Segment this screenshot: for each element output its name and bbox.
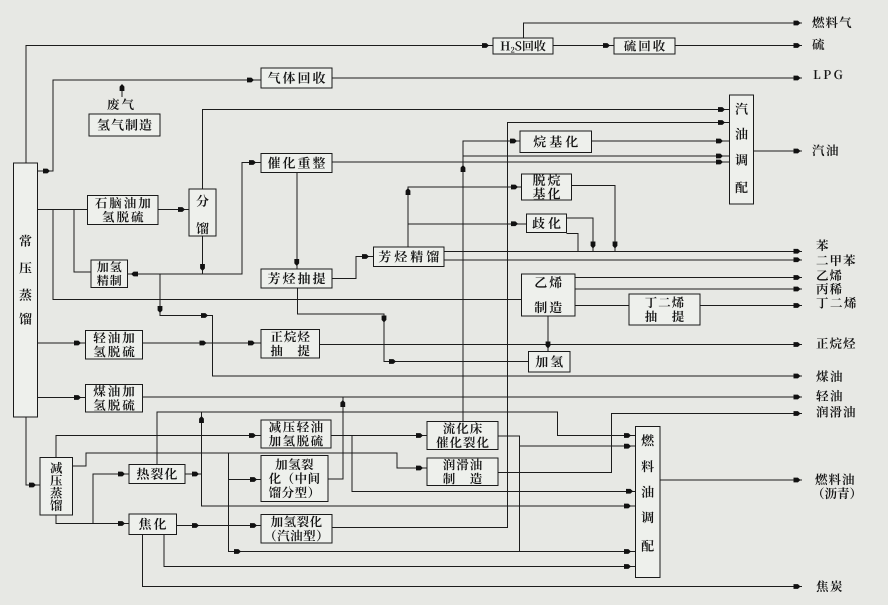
arrowhead 煤油线→ bbox=[201, 313, 208, 318]
arrowhead →催化重整 bbox=[249, 160, 256, 165]
wire 减压蒸馏→减压轻油加氢脱硫 bbox=[56, 436, 261, 458]
arrowhead 分馏底↓ bbox=[200, 264, 205, 271]
wire 催化裂化汽油→汽油调配 bbox=[463, 155, 730, 157]
wire 乙烯制造→丙稀 bbox=[575, 288, 802, 290]
unit 焦化 bbox=[129, 514, 177, 535]
wire 润滑油制造→润滑油 bbox=[498, 414, 802, 473]
arrowhead →焦炭 bbox=[794, 584, 801, 589]
node 燃料油 bbox=[815, 473, 854, 485]
node 丙稀 bbox=[816, 283, 841, 295]
arrowhead →热裂化 bbox=[118, 472, 125, 477]
wire 减压渣油→热裂化 bbox=[93, 474, 129, 524]
arrowhead →减压蒸馏 bbox=[29, 483, 36, 488]
arrowhead →丁二烯 bbox=[794, 303, 801, 308]
arrowhead →燃料油 bbox=[794, 478, 801, 483]
arrowhead →煤油加氢脱硫 bbox=[74, 395, 81, 400]
unit 加氢 bbox=[529, 352, 571, 373]
wire 芳烃精馏→二甲苯 bbox=[444, 259, 802, 261]
arrowhead 煤油线↓ bbox=[158, 306, 163, 313]
arrowhead →烷基化 bbox=[510, 139, 517, 144]
wire 芳烃抽提→芳烃精馏 bbox=[332, 257, 374, 279]
unit 催化重整 bbox=[261, 154, 332, 173]
wire 减压轻油加氢脱硫→流化床催化裂化 bbox=[331, 435, 427, 437]
arrowhead →苯 bbox=[794, 249, 801, 254]
arrowhead →润滑油 bbox=[794, 411, 801, 416]
arrowhead 废气↑ bbox=[120, 84, 125, 91]
node 焦炭 bbox=[816, 580, 842, 592]
arrowhead →轻油 bbox=[794, 395, 801, 400]
arrowhead →LPG bbox=[794, 76, 801, 81]
wire H₂S回收→燃料气 bbox=[524, 23, 803, 38]
unit 歧化 bbox=[527, 214, 567, 233]
arrowhead 裂解汽油→ bbox=[389, 359, 396, 364]
unit 减压蒸馏 bbox=[40, 458, 73, 516]
unit 煤油加氢脱硫 bbox=[86, 385, 143, 413]
arrowhead →硫回收 bbox=[603, 43, 610, 48]
arrowhead →歧化 bbox=[511, 221, 518, 226]
node 乙烯 bbox=[817, 269, 842, 281]
unit 减压轻油加氢脱硫 bbox=[261, 420, 331, 448]
wire 石脑油加氢脱硫→分馏 bbox=[158, 209, 189, 211]
arrowhead →二甲苯 bbox=[794, 257, 801, 262]
wire 常压蒸馏→轻油加氢脱硫 bbox=[38, 342, 86, 344]
wire 常压蒸馏→气体回收 bbox=[38, 80, 262, 171]
arrowhead →气体回收 bbox=[247, 78, 254, 83]
wire 常压蒸馏塔顶气→H₂S回收 bbox=[26, 46, 493, 164]
wire 焦化→燃料油调配 bbox=[164, 535, 636, 567]
wire 石脑油→乙烯制造 bbox=[53, 210, 522, 300]
wire 乙烯制造→乙烯 bbox=[575, 277, 802, 279]
unit 脱烷基化 bbox=[522, 174, 572, 200]
arrowhead →芳烃精馏 bbox=[362, 254, 369, 259]
arrowhead →芳烃抽提↓ bbox=[294, 259, 299, 266]
unit 丁二烯抽提 bbox=[629, 294, 700, 325]
unit 润滑油制造 bbox=[427, 458, 498, 486]
unit 燃料油调配 bbox=[635, 426, 660, 577]
node LPG bbox=[814, 70, 843, 79]
node 汽油 bbox=[812, 144, 838, 156]
node 硫 bbox=[812, 38, 824, 50]
arrowhead 脱烷基化→苯线↓ bbox=[613, 242, 618, 249]
arrowhead →正烷烃抽提 bbox=[248, 341, 255, 346]
arrowhead →汽油调配4 bbox=[716, 154, 723, 159]
wire 加氢裂化(汽油型)→汽油调配 bbox=[332, 123, 730, 528]
unit 轻油加氢脱硫 bbox=[86, 331, 143, 360]
wire 减压渣油→焦化 bbox=[56, 515, 129, 524]
unit 分馏 bbox=[189, 189, 216, 236]
wire 常压蒸馏→煤油加氢脱硫 bbox=[38, 397, 86, 399]
wire 减压馏分→加氢裂化(中间馏分型) bbox=[229, 479, 261, 481]
node 正烷烃 bbox=[816, 337, 855, 349]
arrowhead →燃料气 bbox=[794, 21, 801, 26]
unit 汽油调配 bbox=[730, 95, 754, 204]
arrowhead →煤油 bbox=[794, 374, 801, 379]
arrowhead 加氢裂化并入轻油线↑ bbox=[340, 400, 345, 407]
wire 煤油线 bbox=[160, 274, 802, 376]
arrowhead →汽油 bbox=[794, 149, 801, 154]
wire 脱烷基化→苯线 bbox=[572, 186, 616, 252]
arrowhead →加氢裂化(汽油型) bbox=[250, 523, 257, 528]
wire H₂S回收→硫回收 bbox=[553, 45, 614, 47]
wire 乙烯制造→加氢 bbox=[547, 316, 549, 352]
wire 气体回收→LPG bbox=[332, 77, 802, 79]
wire 歧化→苯线 bbox=[567, 218, 594, 251]
wire 焦化→加氢裂化(汽油型) bbox=[176, 525, 261, 527]
arrowhead →燃料油调配6 bbox=[624, 564, 631, 569]
wire 常压蒸馏→减压蒸馏 bbox=[26, 417, 40, 485]
unit H2S回收 bbox=[493, 38, 553, 54]
wire 减压馏分→燃料油调配 bbox=[229, 453, 636, 552]
wire 重整原料线(加氢精制/催化重整) bbox=[128, 163, 262, 275]
arrowhead →汽油调配2 bbox=[718, 120, 725, 125]
wire 烷基化→汽油调配 bbox=[592, 140, 730, 142]
arrowhead →汽油调配3 bbox=[716, 139, 723, 144]
arrowhead →燃料油调配2 bbox=[624, 444, 631, 449]
arrowhead →润滑油制造 bbox=[416, 466, 423, 471]
unit 氢气制造 bbox=[89, 114, 160, 136]
node 苯 bbox=[816, 239, 828, 251]
node 轻油 bbox=[816, 390, 842, 402]
wire 流化床催化裂化重油引出 bbox=[498, 436, 520, 552]
unit 热裂化 bbox=[129, 465, 185, 484]
wire 芳烃精馏→脱烷基化 bbox=[408, 187, 522, 247]
wire 裂解汽油线 芳烃抽提↔加氢 bbox=[298, 288, 529, 362]
wire 催化重整→汽油调配 bbox=[332, 161, 730, 163]
wire 减压轻油→燃料油调配 bbox=[352, 436, 635, 492]
wire 减压蒸馏→润滑油制造 bbox=[73, 453, 428, 468]
arrowhead →汽油调配1 bbox=[718, 107, 725, 112]
arrowhead 歧化→苯线↓ bbox=[591, 242, 596, 249]
wire 分馏塔底引出 bbox=[202, 236, 204, 274]
node (沥青) bbox=[820, 487, 854, 499]
unit 流化床催化裂化 bbox=[427, 422, 498, 450]
arrowhead →减压轻油加氢脱硫 bbox=[249, 433, 256, 438]
unit 烷基化 bbox=[520, 131, 592, 153]
node 润滑油 bbox=[816, 406, 855, 418]
unit 芳烃抽提 bbox=[261, 269, 332, 288]
wire 乙烯制造→丁二烯抽提 bbox=[575, 305, 629, 307]
arrowhead →硫 bbox=[794, 43, 801, 48]
wire 焦化→焦炭 bbox=[143, 535, 803, 587]
node 二甲苯 bbox=[817, 254, 856, 266]
arrowhead →汽油调配5 bbox=[716, 160, 723, 165]
wire 轻油产品线 bbox=[143, 396, 803, 398]
arrowhead →正烷烃 bbox=[794, 342, 801, 347]
arrowhead 煤油支线前→ bbox=[200, 341, 207, 346]
arrowhead 热裂化出料→ bbox=[192, 472, 199, 477]
node 丁二烯 bbox=[817, 297, 856, 309]
arrowhead 常压蒸馏顶拐角 bbox=[43, 169, 50, 174]
wire 轻油加氢脱硫→正烷烃抽提 bbox=[143, 342, 261, 344]
arrowhead →焦化 bbox=[118, 521, 125, 526]
arrowhead 热裂化支线↑ bbox=[199, 416, 204, 423]
arrowhead →脱烷基化 bbox=[511, 185, 518, 190]
arrowhead 焦化出料→ bbox=[192, 523, 199, 528]
arrowhead 催化裂化气↑ bbox=[461, 165, 466, 172]
wire 废气排放 bbox=[121, 86, 123, 97]
wire 加氢裂化(中间馏分型)→轻油线 bbox=[328, 397, 343, 479]
wire 汽油调配→汽油 bbox=[754, 150, 803, 152]
arrowhead →轻油加氢脱硫 bbox=[74, 341, 81, 346]
node 废气 bbox=[107, 98, 133, 110]
arrowhead →燃料油调配4 bbox=[624, 504, 631, 509]
wire 燃料油调配→燃料油 bbox=[660, 479, 802, 481]
arrowhead →加氢精制← bbox=[131, 272, 138, 277]
arrowhead →加氢↓ bbox=[546, 342, 551, 349]
wire 热裂化支线→燃料油调配 bbox=[202, 412, 636, 506]
unit 常压蒸馏 bbox=[14, 163, 38, 417]
wire 常压蒸馏→石脑油加氢脱硫 bbox=[38, 209, 88, 211]
wire 芳烃精馏→苯 bbox=[444, 250, 802, 252]
wire 芳烃精馏→歧化 bbox=[408, 223, 527, 225]
wire 石脑油→加氢精制 bbox=[74, 210, 91, 273]
wire 分馏→汽油调配 bbox=[203, 110, 730, 190]
wire 丁二烯抽提→丁二烯 bbox=[700, 305, 802, 307]
arrowhead →燃料油调配5 bbox=[624, 549, 631, 554]
wire 硫回收→硫 bbox=[675, 45, 802, 47]
unit 加氢裂化(中间馏分型) bbox=[261, 456, 328, 502]
arrowhead →丙稀 bbox=[794, 287, 801, 292]
wire 催化裂化重油→燃料油调配 bbox=[520, 445, 636, 447]
arrowhead →燃料油调配3 bbox=[626, 489, 633, 494]
wire 热裂化→燃料油调配(上路) bbox=[157, 412, 635, 465]
arrowhead →流化床催化裂化 bbox=[416, 433, 423, 438]
unit 乙烯制造 bbox=[522, 274, 576, 316]
arrowhead →乙烯 bbox=[794, 275, 801, 280]
wire 催化裂化气体→烷基化 bbox=[463, 141, 520, 422]
arrowhead 减压馏分→ bbox=[234, 549, 241, 554]
wire 热裂化出料 bbox=[185, 473, 202, 475]
arrowhead →H₂S回收 bbox=[482, 43, 489, 48]
arrowhead →加氢裂化(中间馏分型) bbox=[250, 477, 257, 482]
node 煤油 bbox=[816, 370, 842, 382]
arrowhead 裂解汽油↓ bbox=[382, 316, 387, 323]
wire 催化重整→芳烃抽提 bbox=[296, 173, 298, 270]
unit 石脑油加氢脱硫 bbox=[88, 196, 159, 225]
arrowhead →分馏 bbox=[178, 207, 185, 212]
arrowhead 芳烃精馏顶↑ bbox=[406, 188, 411, 195]
unit 加氢精制 bbox=[91, 260, 128, 288]
unit 硫回收 bbox=[614, 38, 675, 54]
unit 气体回收 bbox=[261, 68, 332, 88]
unit 芳烃精馏 bbox=[374, 247, 445, 267]
wire 歧化底部→苯线 bbox=[567, 234, 579, 252]
arrowhead →燃料油调配1 bbox=[624, 433, 631, 438]
node 燃料气 bbox=[812, 16, 851, 28]
unit 正烷烃抽提 bbox=[261, 330, 320, 359]
wire 正烷烃抽提→正烷烃 bbox=[320, 344, 803, 346]
unit 加氢裂化(汽油型) bbox=[261, 515, 332, 544]
